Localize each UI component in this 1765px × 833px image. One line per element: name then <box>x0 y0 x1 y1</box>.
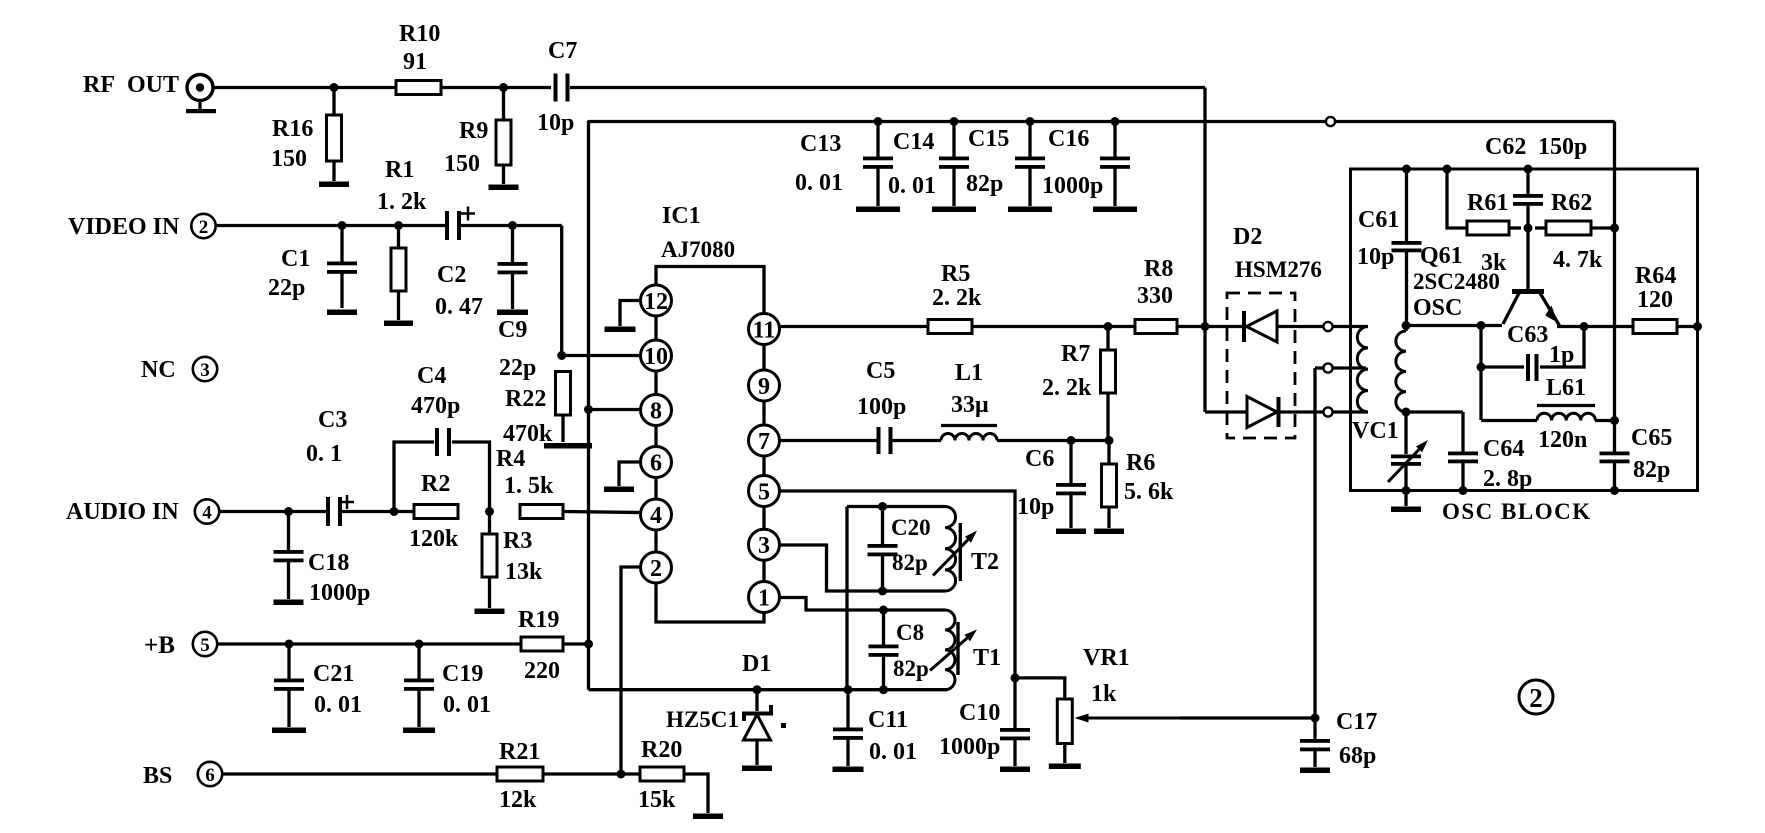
capacitor C7 <box>537 38 577 136</box>
wire pin5 net <box>780 491 1016 678</box>
wire <box>213 86 396 89</box>
wire pin1 net <box>780 598 946 611</box>
resistor R9 <box>444 118 511 184</box>
capacitor C13 <box>795 122 893 207</box>
capacitor C18 <box>274 512 371 607</box>
svg-text:1. 5k: 1. 5k <box>504 473 554 499</box>
IC1 pin 11 <box>749 314 780 345</box>
figure mark 2 <box>1519 680 1553 714</box>
svg-text:+B: +B <box>144 632 175 659</box>
resistor R22 <box>503 372 571 448</box>
IC1 pin 3 <box>749 529 780 560</box>
svg-text:VC1: VC1 <box>1352 418 1399 444</box>
svg-text:2: 2 <box>199 217 209 238</box>
port +B <box>144 632 217 659</box>
svg-text:1000p: 1000p <box>309 580 370 606</box>
svg-text:5: 5 <box>200 635 210 656</box>
svg-text:12k: 12k <box>499 787 537 813</box>
svg-text:82p: 82p <box>966 171 1003 197</box>
capacitor C19 <box>404 644 491 727</box>
port RF OUT connector <box>83 72 216 113</box>
capacitor C6 <box>1017 441 1086 529</box>
wire tap mid <box>1315 366 1324 369</box>
capacitor C2 (series, polarized) <box>435 207 483 321</box>
svg-text:C18: C18 <box>308 550 349 576</box>
transformer T2 winding <box>945 507 999 592</box>
wire collector net <box>1406 324 1502 327</box>
svg-text:100p: 100p <box>857 394 906 420</box>
wire IC right pin chain <box>762 315 765 611</box>
svg-text:C21: C21 <box>313 661 354 687</box>
node <box>1067 436 1076 445</box>
wire <box>1015 678 1065 699</box>
wire <box>340 510 414 513</box>
ground <box>742 766 772 772</box>
svg-text:C4: C4 <box>417 363 446 389</box>
wire IC top link <box>656 267 764 316</box>
wire <box>1333 366 1367 369</box>
svg-text:C6: C6 <box>1025 446 1054 472</box>
resistor R20 <box>638 737 684 813</box>
ground <box>693 814 723 820</box>
svg-text:R2: R2 <box>421 471 450 497</box>
svg-text:0. 01: 0. 01 <box>314 692 362 718</box>
svg-text:0. 01: 0. 01 <box>869 739 917 765</box>
wire base lead <box>1526 228 1529 289</box>
port VIDEO IN <box>68 214 216 240</box>
svg-text:BS: BS <box>143 763 172 789</box>
wire <box>459 226 562 357</box>
svg-text:330: 330 <box>1137 283 1173 309</box>
node <box>415 640 424 649</box>
IC1 pin 7 <box>749 425 780 456</box>
OSC block outline <box>1351 169 1698 491</box>
svg-text:NC: NC <box>141 357 176 383</box>
node <box>394 221 403 230</box>
ground <box>475 609 505 615</box>
svg-text:22p: 22p <box>268 275 305 301</box>
node <box>753 685 762 694</box>
wire D2 feed vertical <box>1203 88 1206 413</box>
port BS <box>143 762 222 789</box>
svg-text:D1: D1 <box>742 651 771 677</box>
ground <box>1300 768 1330 774</box>
svg-text:2: 2 <box>650 556 662 582</box>
svg-text:220: 220 <box>524 658 560 684</box>
node <box>1311 714 1320 723</box>
wire T2 top rail <box>847 505 945 508</box>
IC1 pin 5 <box>749 476 780 507</box>
svg-text:C15: C15 <box>968 126 1009 152</box>
svg-text:IC1: IC1 <box>662 203 701 229</box>
ground <box>1094 529 1124 535</box>
node <box>390 507 399 516</box>
svg-text:33μ: 33μ <box>951 392 989 418</box>
capacitor C63 <box>1481 322 1584 381</box>
svg-text:10: 10 <box>644 344 668 370</box>
svg-text:R9: R9 <box>459 118 488 144</box>
wire pin2 riser <box>621 567 641 774</box>
svg-text:C5: C5 <box>866 358 895 384</box>
resistor R64 <box>1633 263 1677 334</box>
svg-text:R19: R19 <box>518 607 559 633</box>
svg-text:12: 12 <box>644 289 668 315</box>
variable capacitor VC1 <box>1352 412 1428 490</box>
wire IC bottom link <box>656 581 764 622</box>
T2 tuning arrow <box>933 531 977 576</box>
node <box>1477 321 1486 330</box>
node <box>557 351 566 360</box>
resistor R16 <box>271 115 342 181</box>
svg-text:0. 01: 0. 01 <box>888 173 936 199</box>
diode D2a <box>1205 311 1324 342</box>
resistor R5 <box>928 261 982 334</box>
ground <box>833 767 864 773</box>
wire IC left pin chain <box>654 287 657 581</box>
svg-text:82p: 82p <box>892 550 928 575</box>
svg-text:6: 6 <box>650 451 662 477</box>
svg-text:C1: C1 <box>281 246 310 272</box>
wire pin3 net <box>780 545 946 591</box>
wire <box>780 439 878 442</box>
svg-text:470p: 470p <box>411 393 460 419</box>
node <box>1011 673 1020 682</box>
resistor R10 <box>396 21 441 95</box>
IC1 pin 12 <box>641 285 672 316</box>
ground <box>327 310 357 316</box>
svg-text:D2: D2 <box>1233 224 1262 250</box>
node <box>879 606 888 615</box>
node <box>1610 416 1619 425</box>
svg-text:3: 3 <box>758 533 770 559</box>
ground <box>489 185 519 191</box>
IC1 pin 4 <box>641 499 672 530</box>
capacitor C16 <box>1042 122 1130 207</box>
wire T2 left drop <box>845 507 848 690</box>
wire <box>563 642 589 645</box>
svg-text:C65: C65 <box>1631 425 1672 451</box>
terminal <box>1323 363 1332 372</box>
wire <box>684 774 708 813</box>
svg-text:C20: C20 <box>891 515 931 540</box>
node <box>1459 486 1468 495</box>
resistor R7 <box>1042 327 1116 441</box>
node <box>338 221 347 230</box>
wire tap drop <box>1313 368 1316 718</box>
svg-text:C16: C16 <box>1048 126 1089 152</box>
capacitor C64 <box>1448 412 1532 492</box>
wire <box>219 510 327 513</box>
svg-text:R16: R16 <box>272 116 313 142</box>
svg-text:C10: C10 <box>959 700 1000 726</box>
svg-text:HZ5C1: HZ5C1 <box>666 707 739 732</box>
svg-text:120: 120 <box>1637 287 1673 313</box>
svg-text:2. 8p: 2. 8p <box>1483 466 1532 492</box>
svg-text:8: 8 <box>650 399 662 425</box>
svg-text:T1: T1 <box>973 645 1001 671</box>
transformer T1 winding <box>945 610 1001 690</box>
node <box>950 117 959 126</box>
terminal <box>1323 407 1332 416</box>
wire <box>780 325 929 328</box>
svg-text:1000p: 1000p <box>939 734 1000 760</box>
wire <box>502 88 505 121</box>
IC1 pin 1 <box>749 582 780 613</box>
svg-text:C64: C64 <box>1483 436 1524 462</box>
svg-text:R6: R6 <box>1126 450 1155 476</box>
label OSC BLOCK <box>1442 499 1592 524</box>
IC1 pin 10 <box>641 340 672 371</box>
wire pin8 net <box>589 408 642 411</box>
node <box>485 507 494 516</box>
capacitor C62 <box>1485 134 1587 228</box>
wire <box>1447 169 1467 228</box>
svg-text:68p: 68p <box>1339 743 1376 769</box>
wire <box>1677 325 1698 328</box>
svg-text:4: 4 <box>650 503 662 529</box>
svg-text:HSM276: HSM276 <box>1235 257 1322 282</box>
wire top bus <box>589 120 1327 123</box>
capacitor C61 <box>1357 169 1422 326</box>
capacitor C65 <box>1600 425 1673 491</box>
svg-text:22p: 22p <box>499 355 536 381</box>
svg-text:10p: 10p <box>1017 494 1054 520</box>
svg-text:C62: C62 <box>1485 134 1526 160</box>
capacitor C14 <box>888 122 969 207</box>
svg-text:120k: 120k <box>409 526 459 552</box>
node <box>617 770 626 779</box>
svg-text:R20: R20 <box>641 737 682 763</box>
node <box>284 507 293 516</box>
svg-text:L1: L1 <box>955 360 983 386</box>
zener diode D1 HZ5C1 <box>666 651 786 765</box>
ground <box>497 310 528 316</box>
capacitor C3 (series, polarized) <box>306 407 354 526</box>
ground <box>1049 764 1081 770</box>
svg-text:C63: C63 <box>1507 322 1548 348</box>
svg-text:RF OUT: RF OUT <box>83 72 179 98</box>
IC1 pin 9 <box>749 370 780 401</box>
wire <box>1333 410 1369 413</box>
svg-text:6: 6 <box>205 765 215 786</box>
svg-text:R1: R1 <box>385 157 414 183</box>
svg-text:C2: C2 <box>437 262 466 288</box>
svg-text:R21: R21 <box>499 739 540 765</box>
potentiometer VR1 <box>1057 645 1129 763</box>
svg-text:VR1: VR1 <box>1083 645 1130 671</box>
port NC <box>141 357 217 383</box>
node <box>1105 436 1114 445</box>
wire C4 branch <box>394 442 490 512</box>
capacitor C1 <box>268 226 357 309</box>
svg-text:150: 150 <box>271 146 307 172</box>
node <box>1524 165 1533 174</box>
wire <box>222 772 497 775</box>
svg-text:C13: C13 <box>800 131 841 157</box>
node <box>1104 322 1113 331</box>
wire <box>1177 325 1205 328</box>
ground <box>856 207 900 213</box>
svg-text:C7: C7 <box>548 38 577 64</box>
node <box>1111 117 1120 126</box>
node <box>1580 322 1589 331</box>
IC1 pin 6 <box>641 447 672 478</box>
svg-text:10p: 10p <box>537 110 574 136</box>
capacitor C5 <box>857 358 906 454</box>
svg-text:150: 150 <box>444 151 480 177</box>
resistor R1 <box>377 157 427 320</box>
node <box>878 502 887 511</box>
svg-text:7: 7 <box>758 429 770 455</box>
resistor R6 <box>1102 441 1175 529</box>
svg-text:R4: R4 <box>496 446 525 472</box>
wire <box>441 86 551 89</box>
port AUDIO IN <box>66 499 219 525</box>
wire top bus right <box>1335 120 1615 123</box>
wire <box>1509 226 1521 229</box>
wire <box>997 439 1111 442</box>
wire <box>217 642 521 645</box>
svg-text:2. 2k: 2. 2k <box>1042 375 1092 401</box>
svg-text:C11: C11 <box>868 707 908 733</box>
resistor R62 <box>1535 190 1603 273</box>
svg-text:L61: L61 <box>1546 375 1586 401</box>
IC1 pin 2 <box>641 552 672 583</box>
svg-text:C3: C3 <box>318 407 347 433</box>
svg-text:R22: R22 <box>505 386 546 412</box>
wire feedback drop <box>1613 122 1616 452</box>
capacitor C10 <box>939 678 1030 766</box>
node <box>508 221 517 230</box>
node <box>1610 486 1619 495</box>
svg-text:C14: C14 <box>893 129 934 155</box>
transformer secondary winding <box>1396 326 1406 413</box>
capacitor C15 <box>966 122 1045 207</box>
svg-text:OSC: OSC <box>1413 295 1462 321</box>
ground <box>1008 207 1052 213</box>
svg-text:C19: C19 <box>442 661 483 687</box>
node <box>879 685 888 694</box>
ground <box>932 207 976 213</box>
svg-text:T2: T2 <box>971 549 999 575</box>
node <box>1026 117 1035 126</box>
resistor R2 <box>409 471 459 552</box>
svg-text:2. 2k: 2. 2k <box>932 285 982 311</box>
svg-text:1k: 1k <box>1091 681 1117 707</box>
resistor R3 <box>482 512 543 609</box>
svg-text:R64: R64 <box>1635 263 1676 289</box>
svg-text:2: 2 <box>1529 683 1543 713</box>
svg-text:OSC BLOCK: OSC BLOCK <box>1442 499 1592 524</box>
wire <box>563 512 641 513</box>
ground <box>1391 507 1421 513</box>
svg-text:4. 7k: 4. 7k <box>1553 247 1603 273</box>
svg-text:4: 4 <box>202 502 212 523</box>
capacitor C4 <box>411 363 460 456</box>
svg-text:1. 2k: 1. 2k <box>377 189 427 215</box>
wire <box>543 772 640 775</box>
wire <box>216 224 447 227</box>
svg-text:AJ7080: AJ7080 <box>661 237 735 262</box>
svg-text:91: 91 <box>403 49 427 75</box>
ground <box>319 182 349 188</box>
ground <box>384 321 413 327</box>
resistor R4 <box>496 446 563 519</box>
ground <box>1056 529 1086 535</box>
svg-text:1: 1 <box>758 586 770 612</box>
wire pin6 ground lead <box>619 462 641 486</box>
svg-text:R61: R61 <box>1467 190 1508 216</box>
svg-text:120n: 120n <box>1538 427 1587 453</box>
svg-text:5. 6k: 5. 6k <box>1124 479 1174 505</box>
D2 labels <box>1233 224 1322 282</box>
resistor R61 <box>1467 190 1509 276</box>
node <box>330 83 339 92</box>
svg-text:R3: R3 <box>503 528 532 554</box>
ground <box>274 600 304 606</box>
ground <box>1093 207 1137 213</box>
node <box>878 587 887 596</box>
ground <box>403 728 435 734</box>
capacitor C17 <box>1300 709 1377 769</box>
svg-text:R5: R5 <box>941 261 970 287</box>
node <box>285 640 294 649</box>
wire <box>972 325 1135 328</box>
svg-text:VIDEO IN: VIDEO IN <box>68 214 180 240</box>
capacitor C20 <box>868 507 931 592</box>
svg-text:3: 3 <box>200 360 210 381</box>
ground <box>605 327 636 333</box>
node <box>1693 322 1702 331</box>
wire <box>570 86 1205 89</box>
svg-text:C9: C9 <box>498 317 527 343</box>
node <box>1477 363 1486 372</box>
terminal <box>1323 322 1332 331</box>
wire <box>1591 226 1615 229</box>
node <box>584 640 593 649</box>
T1 tuning arrow <box>930 630 977 671</box>
svg-text:C17: C17 <box>1336 709 1377 735</box>
svg-text:10p: 10p <box>1357 244 1394 270</box>
VR1 wiper arrow <box>1075 714 1316 723</box>
svg-text:82p: 82p <box>893 656 929 681</box>
svg-text:0. 47: 0. 47 <box>435 294 483 320</box>
svg-text:0. 1: 0. 1 <box>306 441 342 467</box>
wire <box>1404 491 1407 507</box>
resistor R21 <box>497 739 543 813</box>
node <box>1610 224 1619 233</box>
svg-text:R8: R8 <box>1144 256 1173 282</box>
capacitor C11 <box>833 690 917 766</box>
junction bead <box>1326 117 1335 126</box>
node <box>1402 408 1411 417</box>
svg-text:1000p: 1000p <box>1042 173 1103 199</box>
svg-text:5: 5 <box>758 480 770 506</box>
inductor L1 <box>941 360 997 441</box>
IC IC1 AJ7080 label <box>661 203 735 262</box>
svg-text:2SC2480: 2SC2480 <box>1413 269 1500 294</box>
node <box>499 83 508 92</box>
svg-text:R7: R7 <box>1061 341 1090 367</box>
wire pin10 net <box>562 354 641 357</box>
ground <box>604 487 634 493</box>
diode D2b <box>1205 397 1324 428</box>
wire <box>1406 410 1463 413</box>
wire emitter net <box>1557 325 1633 328</box>
node <box>1402 165 1411 174</box>
wire C63 left stub <box>1479 326 1482 421</box>
svg-text:Q61: Q61 <box>1420 243 1463 269</box>
